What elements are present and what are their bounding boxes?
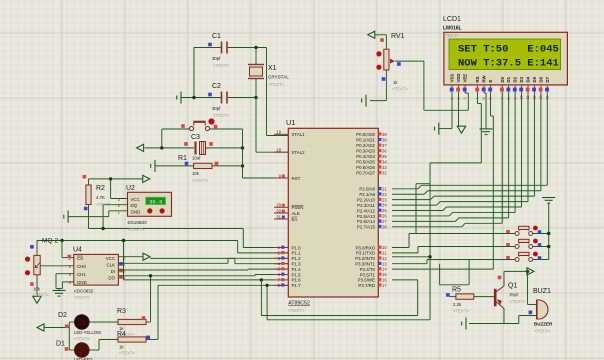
wire gnd join bbox=[56, 288, 62, 290]
U1 pin stub P1.2 bbox=[274, 257, 288, 259]
wire R3 right lead bbox=[146, 321, 151, 323]
wire DQ down bbox=[102, 205, 104, 229]
junction P1.6 drop bbox=[260, 278, 263, 281]
svg-text:LED-YELLOW: LED-YELLOW bbox=[74, 330, 101, 335]
wire CH1 down bbox=[55, 274, 57, 289]
wire DO bbox=[118, 275, 255, 277]
wire data bus P2.5 riser bbox=[514, 93, 516, 212]
ground left of R1 bbox=[151, 160, 155, 172]
wire RST entry bbox=[243, 177, 289, 179]
pin marker R2 bottom (blue) bbox=[84, 207, 88, 211]
wire D1 right bbox=[89, 349, 99, 351]
wire wiper down bbox=[423, 61, 425, 110]
svg-text:29: 29 bbox=[276, 203, 281, 208]
wire D2 to R3 bbox=[89, 321, 118, 323]
svg-text:RST: RST bbox=[292, 176, 301, 181]
wire K1 left stub bbox=[510, 233, 515, 235]
wire C1 right to corner bbox=[228, 47, 267, 49]
wire P1.4 entry bbox=[248, 268, 288, 270]
wire LED column bbox=[68, 322, 70, 350]
junction DQ bus bbox=[101, 227, 104, 230]
pin marker R4 (blue) bbox=[146, 336, 150, 340]
pin marker BUZ1 (blue) bbox=[529, 311, 533, 315]
wire CS bus drop bbox=[237, 241, 239, 253]
wire crystal bottom lead bbox=[255, 79, 257, 98]
pin marker P2.0 (blue) bbox=[378, 187, 381, 190]
wire R2 top lead bbox=[88, 179, 90, 185]
wire RS jog bbox=[478, 103, 482, 105]
svg-text:26: 26 bbox=[382, 214, 387, 219]
resistor R2 bbox=[86, 185, 91, 205]
ground RW bbox=[480, 129, 493, 135]
svg-text:30.0: 30.0 bbox=[149, 198, 163, 205]
svg-text:VCC: VCC bbox=[131, 197, 140, 202]
svg-text:25: 25 bbox=[382, 208, 387, 213]
wire E drop bbox=[492, 116, 494, 269]
svg-text:CS: CS bbox=[77, 256, 83, 261]
wire data bus P2.0 riser bbox=[546, 93, 548, 185]
lcd pin marker 3 (blue) bbox=[463, 88, 467, 92]
lcd pin marker 13 (red) bbox=[539, 88, 543, 92]
power terminal (buzzer rail) bbox=[527, 268, 534, 275]
svg-text:R3: R3 bbox=[117, 308, 126, 315]
sensor U2 DS18B20 body bbox=[128, 192, 172, 216]
U1 pin stub P1.6 bbox=[274, 279, 288, 281]
svg-text:23: 23 bbox=[382, 197, 387, 202]
pin marker P0.7 (red) bbox=[378, 171, 381, 174]
svg-text:P1.6: P1.6 bbox=[292, 278, 302, 283]
pin marker R3 (red) bbox=[142, 316, 146, 320]
wire data bus P2.1 segment b bbox=[428, 190, 541, 192]
terminal RV1 top bbox=[368, 31, 375, 38]
pin marker P1.3 (red) bbox=[281, 262, 284, 265]
wire drop to K1 row bbox=[415, 184, 417, 234]
wire data bus P2.4 segment b bbox=[446, 206, 521, 208]
pin marker P3.7 (red) bbox=[378, 283, 381, 286]
wire VEE down bbox=[467, 93, 469, 110]
RV1 button + (red) bbox=[376, 51, 381, 56]
svg-text:P1.1: P1.1 bbox=[292, 251, 302, 256]
svg-text:22: 22 bbox=[382, 192, 387, 197]
svg-text:3: 3 bbox=[463, 98, 467, 100]
wire VCC rail drop bbox=[234, 258, 236, 263]
wire K2 to P3.1 bbox=[392, 252, 418, 254]
wire collector rail bbox=[504, 270, 528, 272]
svg-text:21: 21 bbox=[382, 186, 387, 191]
wire CLK bbox=[118, 262, 228, 264]
pin marker RV1 (red) bbox=[380, 38, 384, 42]
svg-text:10k: 10k bbox=[33, 287, 41, 292]
svg-text:CLK: CLK bbox=[106, 262, 115, 267]
pin marker P3.3 (blue) bbox=[378, 262, 381, 265]
svg-text:SET T:50 E:045: SET T:50 E:045 bbox=[458, 44, 559, 56]
wire RS to P3.2 bbox=[404, 256, 430, 258]
wire MQ-2 top lead bbox=[36, 241, 38, 256]
svg-text:LM016L: LM016L bbox=[443, 26, 462, 32]
pin marker EA (blue) bbox=[282, 216, 285, 219]
wire CS drop bbox=[61, 241, 63, 258]
pin marker RV1 bottom (blue) bbox=[382, 77, 386, 81]
svg-text:<TEXT>: <TEXT> bbox=[213, 63, 229, 68]
wire crystal top lead bbox=[255, 48, 257, 65]
U2 adjust button - (red) bbox=[160, 208, 165, 213]
button K2 state dot (red) bbox=[533, 239, 538, 244]
svg-text:D3: D3 bbox=[519, 76, 524, 82]
svg-text:RV1: RV1 bbox=[391, 33, 405, 40]
wire DI bbox=[118, 269, 248, 271]
U1 pin stub P1.0 bbox=[274, 247, 288, 249]
svg-text:P3.2/INT0: P3.2/INT0 bbox=[355, 256, 375, 261]
pin marker P1.5 (blue) bbox=[281, 273, 284, 276]
wire R3 up to DO line bbox=[150, 276, 152, 322]
svg-text:34: 34 bbox=[382, 159, 387, 164]
junction C1/crystal top bbox=[254, 46, 257, 49]
pin marker U4 DO (red) bbox=[119, 275, 123, 279]
wire data bus P2.3 diagonal bbox=[437, 202, 441, 206]
transistor Q1 bbox=[495, 286, 504, 309]
wire data bus P2.6 diagonal bbox=[455, 218, 459, 222]
svg-text:32: 32 bbox=[382, 170, 387, 175]
svg-text:P2.1/A9: P2.1/A9 bbox=[359, 192, 375, 197]
svg-text:BUZZER: BUZZER bbox=[534, 322, 553, 327]
wire button right bbox=[210, 128, 243, 130]
junction buzzer rail bbox=[526, 270, 529, 273]
RV1 button - (red) bbox=[376, 65, 381, 70]
wire K1 to P3.0 bbox=[392, 247, 409, 249]
wire RV1 wiper bbox=[395, 60, 424, 62]
MQ-2 button + (red) bbox=[25, 257, 30, 262]
pin marker MQ-2 bottom (red) bbox=[30, 282, 34, 286]
wire data bus P2.6 segment a bbox=[392, 220, 455, 222]
svg-text:P0.2/AD2: P0.2/AD2 bbox=[356, 143, 375, 148]
wire R1 right bbox=[212, 165, 243, 167]
wire data bus P2.5 segment b bbox=[453, 211, 515, 213]
svg-text:R5: R5 bbox=[452, 287, 461, 294]
svg-text:P2.4/A12: P2.4/A12 bbox=[357, 208, 376, 213]
wire VSS to bar bbox=[439, 128, 452, 130]
svg-text:XTAL1: XTAL1 bbox=[292, 132, 306, 137]
svg-text:<TEXT>: <TEXT> bbox=[443, 33, 459, 38]
svg-text:39: 39 bbox=[382, 132, 387, 137]
led D2 (yellow) bbox=[75, 315, 90, 330]
svg-text:DQ: DQ bbox=[131, 203, 138, 208]
U1 left control pin stubs bbox=[274, 207, 288, 219]
junction R2 rail / U2 VCC bbox=[109, 177, 112, 180]
wire E down bbox=[490, 93, 492, 116]
resistor R1 bbox=[194, 163, 212, 168]
pin marker button left (red) bbox=[181, 124, 185, 128]
svg-text:<TEXT>: <TEXT> bbox=[119, 351, 135, 356]
wire K1 right bbox=[533, 233, 549, 235]
junction C3 left bbox=[160, 146, 163, 149]
power terminal (U4 VCC) bbox=[143, 253, 150, 260]
wire data bus P2.0 segment a bbox=[392, 188, 418, 190]
wire down to U2 VCC bbox=[110, 179, 112, 199]
wire P3.6 link bbox=[392, 279, 418, 281]
push button RESET bbox=[189, 122, 209, 131]
wire data bus P2.2 segment a bbox=[392, 199, 430, 201]
svg-text:P1.2: P1.2 bbox=[292, 256, 302, 261]
pin marker K2 left (red) bbox=[506, 243, 510, 247]
lcd pin marker 14 (blue) bbox=[545, 88, 549, 92]
wire K3 left stub bbox=[510, 259, 515, 261]
wire RS down bbox=[477, 93, 479, 104]
svg-text:33: 33 bbox=[382, 165, 387, 170]
lcd pin marker 12 (blue) bbox=[532, 88, 536, 92]
pin marker P0.2 (red) bbox=[378, 143, 381, 146]
pin marker P0.5 (red) bbox=[378, 160, 381, 163]
svg-text:P0.0/AD0: P0.0/AD0 bbox=[356, 132, 375, 137]
svg-text:NOW T:37.5 E:141: NOW T:37.5 E:141 bbox=[458, 58, 559, 70]
svg-text:P0.1/AD1: P0.1/AD1 bbox=[356, 138, 375, 143]
junction C3 right bbox=[241, 146, 244, 149]
wire P1.0 entry bbox=[243, 247, 288, 249]
svg-text:D2: D2 bbox=[513, 76, 518, 82]
wire R1 left bbox=[155, 165, 194, 167]
svg-text:D4: D4 bbox=[526, 76, 531, 82]
lcd pin marker 1 (blue) bbox=[450, 88, 454, 92]
junction K2 common bbox=[547, 245, 550, 248]
pin marker P2.3 (blue) bbox=[378, 203, 381, 206]
svg-text:P1.0: P1.0 bbox=[292, 245, 302, 250]
svg-text:<TEXT>: <TEXT> bbox=[74, 295, 90, 300]
U1 pin stub P1.3 bbox=[274, 263, 288, 265]
pin marker Q1 collector (red) bbox=[498, 276, 502, 280]
button state dot (red) bbox=[208, 118, 214, 124]
wire data bus P2.4 diagonal bbox=[443, 207, 447, 211]
wire U2 GND entry bbox=[109, 210, 128, 212]
svg-text:Q1: Q1 bbox=[508, 283, 517, 290]
capacitor C2 bbox=[222, 92, 228, 104]
pin marker U4 CLK (blue) bbox=[119, 262, 123, 266]
svg-text:31: 31 bbox=[276, 214, 281, 219]
wire data bus P2.7 segment a bbox=[392, 226, 462, 228]
svg-text:RW: RW bbox=[482, 74, 487, 82]
wire P1.5 entry bbox=[255, 274, 288, 276]
wire K1 row bbox=[409, 233, 515, 235]
button K1 state dot (red) bbox=[533, 226, 538, 231]
wire R5 left lead bbox=[450, 296, 456, 298]
wire DI jog bbox=[247, 268, 249, 271]
wire U4 GND entry bbox=[62, 281, 73, 283]
svg-text:AT89C52: AT89C52 bbox=[288, 301, 310, 307]
svg-text:P0.5/AD5: P0.5/AD5 bbox=[356, 160, 375, 165]
svg-text:PNP: PNP bbox=[510, 293, 519, 298]
svg-text:C3: C3 bbox=[191, 134, 200, 141]
svg-text:VEE: VEE bbox=[463, 74, 468, 83]
wire data bus P2.6 riser bbox=[508, 93, 510, 218]
wire data bus P2.2 segment b bbox=[434, 195, 535, 197]
svg-text:R2: R2 bbox=[96, 185, 105, 192]
wire R5 to Q1 base bbox=[474, 296, 494, 298]
svg-text:XTAL2: XTAL2 bbox=[292, 150, 306, 155]
svg-text:13: 13 bbox=[382, 261, 387, 266]
junction C2/crystal bottom bbox=[254, 96, 257, 99]
U1 pin stub P1.5 bbox=[274, 274, 288, 276]
svg-text:P2.5/A13: P2.5/A13 bbox=[357, 214, 376, 219]
pin marker ALE (red) bbox=[282, 210, 285, 213]
wire left vertical C1-C2 bbox=[193, 48, 195, 98]
buzzer BUZ1 bbox=[537, 300, 548, 319]
svg-text:P3.1/TXD: P3.1/TXD bbox=[356, 251, 375, 256]
svg-text:36: 36 bbox=[382, 148, 387, 153]
svg-text:<TEXT>: <TEXT> bbox=[33, 293, 49, 298]
svg-text:10: 10 bbox=[382, 245, 387, 250]
svg-text:R1: R1 bbox=[178, 155, 187, 162]
wire XTAL1 entry bbox=[267, 135, 289, 137]
svg-text:D5: D5 bbox=[532, 76, 537, 82]
wire R4 up to P1.7 bbox=[157, 285, 159, 339]
wire to ground B bbox=[58, 289, 60, 291]
wire data bus P2.1 segment a bbox=[392, 193, 424, 195]
wire K2 right bbox=[533, 246, 549, 248]
pin marker RV1 wiper (blue) bbox=[397, 62, 401, 66]
svg-text:4.7K: 4.7K bbox=[96, 195, 105, 200]
wire R4 right lead bbox=[146, 339, 158, 341]
svg-text:LCD1: LCD1 bbox=[443, 16, 461, 23]
wire VEE to RV1 bbox=[424, 109, 468, 111]
lcd pin marker 6 (blue) bbox=[488, 88, 492, 92]
resistor R5 bbox=[456, 294, 474, 299]
svg-text:P0.3/AD3: P0.3/AD3 bbox=[356, 149, 375, 154]
push button K1 bbox=[515, 226, 533, 235]
wire buzzer top lead bbox=[528, 304, 537, 306]
pin marker P1.6 (red) bbox=[281, 278, 284, 281]
svg-text:P3.3/INT1: P3.3/INT1 bbox=[355, 262, 375, 267]
lcd pin marker 7 (red) bbox=[500, 88, 504, 92]
svg-text:14: 14 bbox=[382, 267, 387, 272]
svg-text:<TEXT>: <TEXT> bbox=[128, 227, 144, 232]
pin marker P2.2 (red) bbox=[378, 198, 381, 201]
pin marker U4 DI (red) bbox=[119, 269, 123, 273]
wire C1 left bbox=[194, 47, 221, 49]
wire to XTAL2 bbox=[255, 98, 257, 153]
svg-text:BUZ1: BUZ1 bbox=[533, 288, 551, 295]
wire data bus P2.1 diagonal bbox=[424, 191, 428, 195]
wire data bus P2.2 riser bbox=[533, 93, 535, 196]
wire DQ bus bbox=[89, 228, 244, 230]
wire K2 row bbox=[418, 246, 515, 248]
wire RW down bbox=[485, 93, 487, 129]
wire P1.3 entry bbox=[235, 263, 288, 265]
svg-text:12: 12 bbox=[382, 256, 387, 261]
push button K3 bbox=[515, 252, 533, 261]
wire data bus P2.6 segment b bbox=[459, 217, 509, 219]
capacitor C1 bbox=[222, 42, 228, 54]
pin marker P3.0 (red) bbox=[378, 246, 381, 249]
svg-text:P1.5: P1.5 bbox=[292, 272, 302, 277]
pin marker K3 left (red) bbox=[506, 256, 510, 260]
resistor R4 bbox=[118, 337, 146, 342]
wire MQ-2 branch down bbox=[123, 241, 125, 280]
wire data bus P2.3 segment b bbox=[440, 201, 528, 203]
svg-text:P1.4: P1.4 bbox=[292, 267, 302, 272]
pin marker R1 left (blue) bbox=[185, 162, 189, 166]
wire D2 left bbox=[69, 321, 74, 323]
svg-text:24: 24 bbox=[382, 203, 387, 208]
wire up to R4 bbox=[98, 340, 100, 351]
svg-text:P0.4/AD4: P0.4/AD4 bbox=[356, 154, 375, 159]
pin marker P0.6 (red) bbox=[378, 165, 381, 168]
wire drop A bbox=[439, 264, 441, 285]
wire data bus P2.0 diagonal bbox=[418, 185, 422, 189]
svg-text:P2.7/A15: P2.7/A15 bbox=[357, 225, 376, 230]
wire CS bus bbox=[37, 240, 238, 242]
wire data bus P2.1 riser bbox=[540, 93, 542, 191]
wire RV1 bottom lead bbox=[385, 70, 387, 101]
svg-text:<TEXT>: <TEXT> bbox=[96, 202, 112, 207]
ground bar Q1 bbox=[462, 318, 466, 330]
wire P1.7 entry bbox=[158, 284, 288, 286]
U1 pin stub XTAL1 bbox=[274, 133, 288, 135]
svg-text:D2: D2 bbox=[58, 312, 67, 319]
svg-text:P3.5/T1: P3.5/T1 bbox=[360, 272, 376, 277]
resistor R3 bbox=[118, 319, 146, 324]
svg-text:RS: RS bbox=[475, 76, 480, 82]
svg-text:CH1: CH1 bbox=[77, 272, 86, 277]
U1 pin stub XTAL2 bbox=[274, 151, 288, 153]
wire XTAL2 entry bbox=[256, 151, 288, 153]
lcd pin marker 9 (blue) bbox=[513, 88, 517, 92]
junction CS bus bbox=[60, 239, 63, 242]
svg-text:D7: D7 bbox=[545, 76, 550, 82]
wire rise A bbox=[468, 260, 470, 285]
push button K2 bbox=[515, 239, 533, 248]
pin marker C2 (blue) bbox=[208, 93, 212, 97]
pin marker P3.6 (red) bbox=[378, 278, 381, 281]
pin marker LED common (red) bbox=[65, 325, 69, 329]
svg-text:D1: D1 bbox=[56, 341, 65, 348]
pin marker R2 top (red) bbox=[83, 175, 87, 179]
svg-text:X1: X1 bbox=[268, 65, 277, 72]
wire Q1 collector up bbox=[503, 271, 505, 286]
pin marker P2.7 (blue) bbox=[378, 225, 381, 228]
svg-text:35: 35 bbox=[382, 154, 387, 159]
svg-text:2.2k: 2.2k bbox=[453, 302, 462, 307]
svg-text:VCC: VCC bbox=[106, 256, 115, 261]
wire K3 row bbox=[427, 259, 515, 261]
wire arrow to LED column bbox=[44, 327, 69, 329]
wire R4 left lead bbox=[99, 339, 118, 341]
wire DQ bus drop bbox=[242, 229, 244, 248]
lcd pin stubs bbox=[452, 85, 547, 93]
wire P1.6 entry bbox=[124, 279, 275, 281]
wire K3 to P3.3 bbox=[392, 263, 427, 265]
svg-text:P3.6/WE: P3.6/WE bbox=[358, 278, 375, 283]
wire rise to P3.6 bbox=[417, 280, 419, 316]
wire button common bbox=[548, 204, 550, 260]
pin marker P2.5 (red) bbox=[378, 214, 381, 217]
button K3 state dot (red) bbox=[533, 252, 538, 257]
junction R3/DO bbox=[149, 274, 152, 277]
svg-text:D6: D6 bbox=[539, 76, 544, 82]
svg-text:<TEXT>: <TEXT> bbox=[74, 337, 90, 342]
svg-text:DS18B20: DS18B20 bbox=[128, 220, 148, 225]
pin marker P0.0 (red) bbox=[378, 132, 381, 135]
output terminal (LED common) bbox=[37, 324, 44, 331]
svg-text:U1: U1 bbox=[286, 118, 296, 127]
lcd screen bbox=[449, 39, 561, 70]
svg-text:C1: C1 bbox=[212, 33, 221, 40]
pin marker R1 right (red) bbox=[215, 162, 219, 166]
pin marker K2 right (blue) bbox=[538, 243, 542, 247]
U2 adjust button + (red) bbox=[147, 208, 152, 213]
pin marker P3.4 (red) bbox=[378, 267, 381, 270]
svg-text:<TEXT>: <TEXT> bbox=[510, 299, 526, 304]
pin marker P2.4 (blue) bbox=[378, 209, 381, 212]
wire K2 drop bbox=[417, 247, 419, 253]
input terminal (reset row) bbox=[137, 144, 144, 151]
